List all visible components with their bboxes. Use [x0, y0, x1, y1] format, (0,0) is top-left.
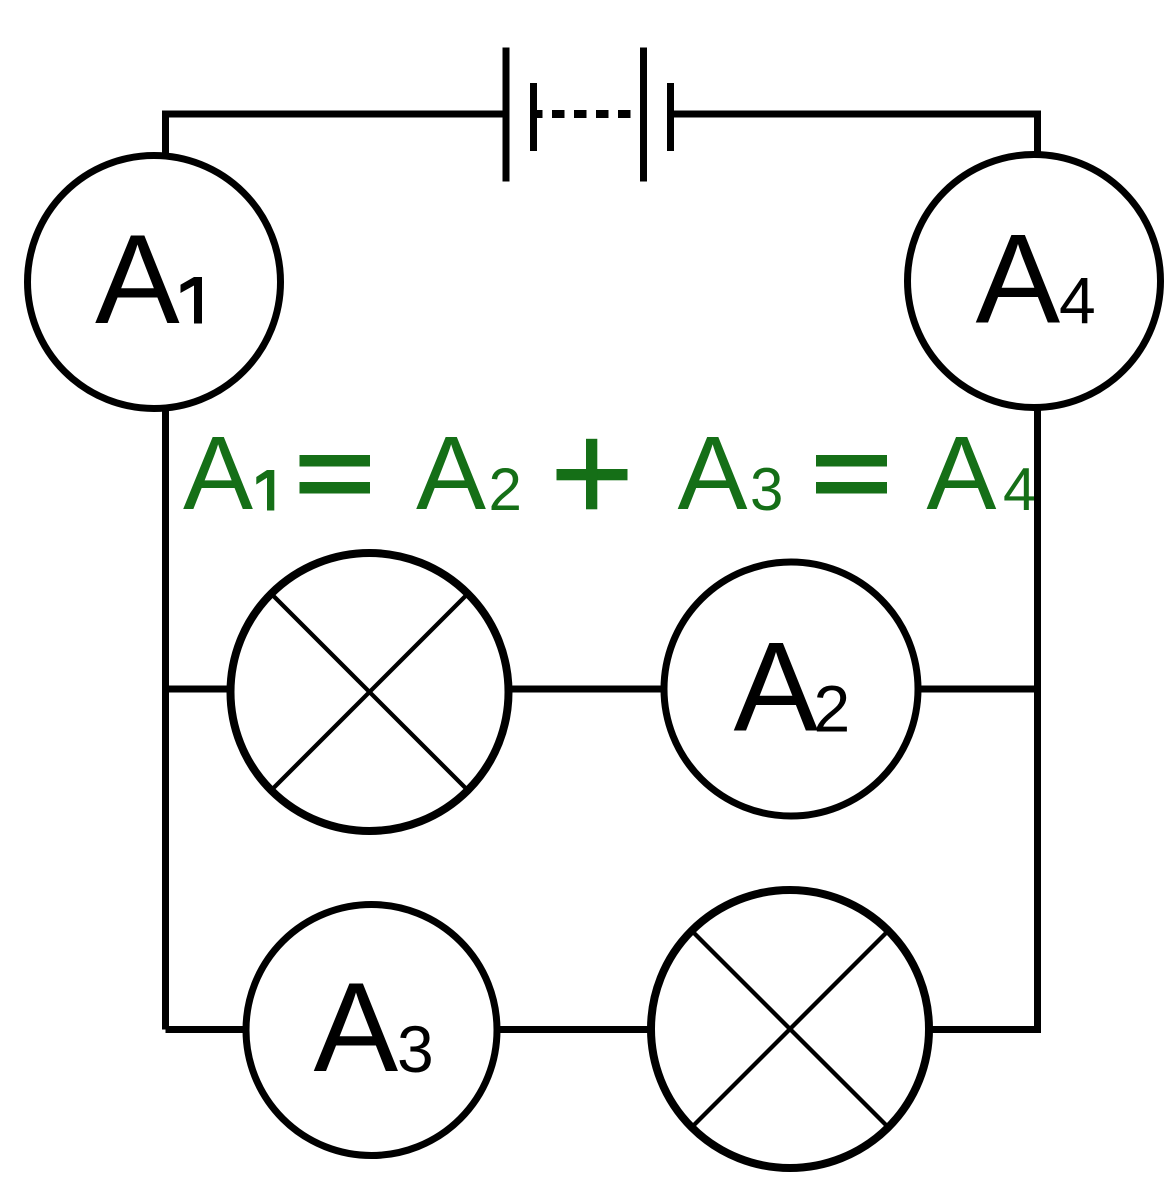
- svg-text:4: 4: [1059, 264, 1096, 338]
- lamp L2 (bottom branch): [651, 890, 929, 1168]
- eq equals sign 1: [300, 455, 371, 467]
- svg-text:A: A: [183, 415, 253, 532]
- svg-text:A: A: [678, 415, 748, 532]
- battery long plate 2: [640, 48, 647, 182]
- svg-text:4: 4: [1003, 456, 1036, 523]
- ammeter A4: [908, 155, 1161, 408]
- wire top-left: from ammeter A1 up and right to battery: [166, 114, 504, 158]
- green equation A1 = A2 + A3 = A4: [183, 415, 1036, 532]
- lamp L1 (middle branch): [231, 553, 509, 831]
- eq subscript 1: [256, 470, 274, 511]
- lamp L1 cross stroke: [272, 594, 468, 790]
- eq equals sign 2: [816, 455, 887, 467]
- wire stub left vertical to ammeter A3: [166, 1026, 249, 1033]
- svg-text:2: 2: [814, 672, 851, 746]
- lamp L2 cross stroke: [692, 931, 888, 1127]
- eq plus sign: [557, 469, 628, 480]
- battery short plate 2: [667, 83, 674, 151]
- wire right vertical: A4 bottom down to bottom branch: [931, 407, 1038, 1030]
- svg-text:2: 2: [489, 456, 522, 523]
- battery long plate 1: [503, 48, 510, 182]
- svg-text:A: A: [976, 208, 1061, 350]
- label A1 subscript 1: [181, 277, 203, 324]
- lamp L1 cross stroke: [272, 594, 468, 790]
- svg-text:A: A: [95, 208, 180, 350]
- ammeter A3: [246, 905, 497, 1156]
- svg-text:3: 3: [750, 456, 783, 523]
- wire left vertical: A1 bottom down to bottom branch: [162, 408, 169, 1030]
- svg-text:A: A: [416, 415, 486, 532]
- wire A3 to lamp L2: [495, 1026, 654, 1033]
- wire lamp L1 to ammeter A2: [507, 686, 666, 693]
- battery short plate 1: [530, 83, 537, 151]
- svg-text:A: A: [734, 616, 819, 758]
- wire top-right: from battery right to ammeter A4: [674, 114, 1038, 155]
- svg-text:3: 3: [397, 1012, 434, 1086]
- ammeter A1: [28, 156, 281, 409]
- wire A2 to right vertical: [916, 686, 1038, 693]
- lamp L2 cross stroke: [692, 931, 888, 1127]
- wire stub to middle lamp: [166, 686, 235, 693]
- ammeter A2: [664, 562, 918, 816]
- battery dashed link: [536, 110, 638, 118]
- svg-text:A: A: [926, 415, 996, 532]
- svg-text:A: A: [314, 956, 399, 1098]
